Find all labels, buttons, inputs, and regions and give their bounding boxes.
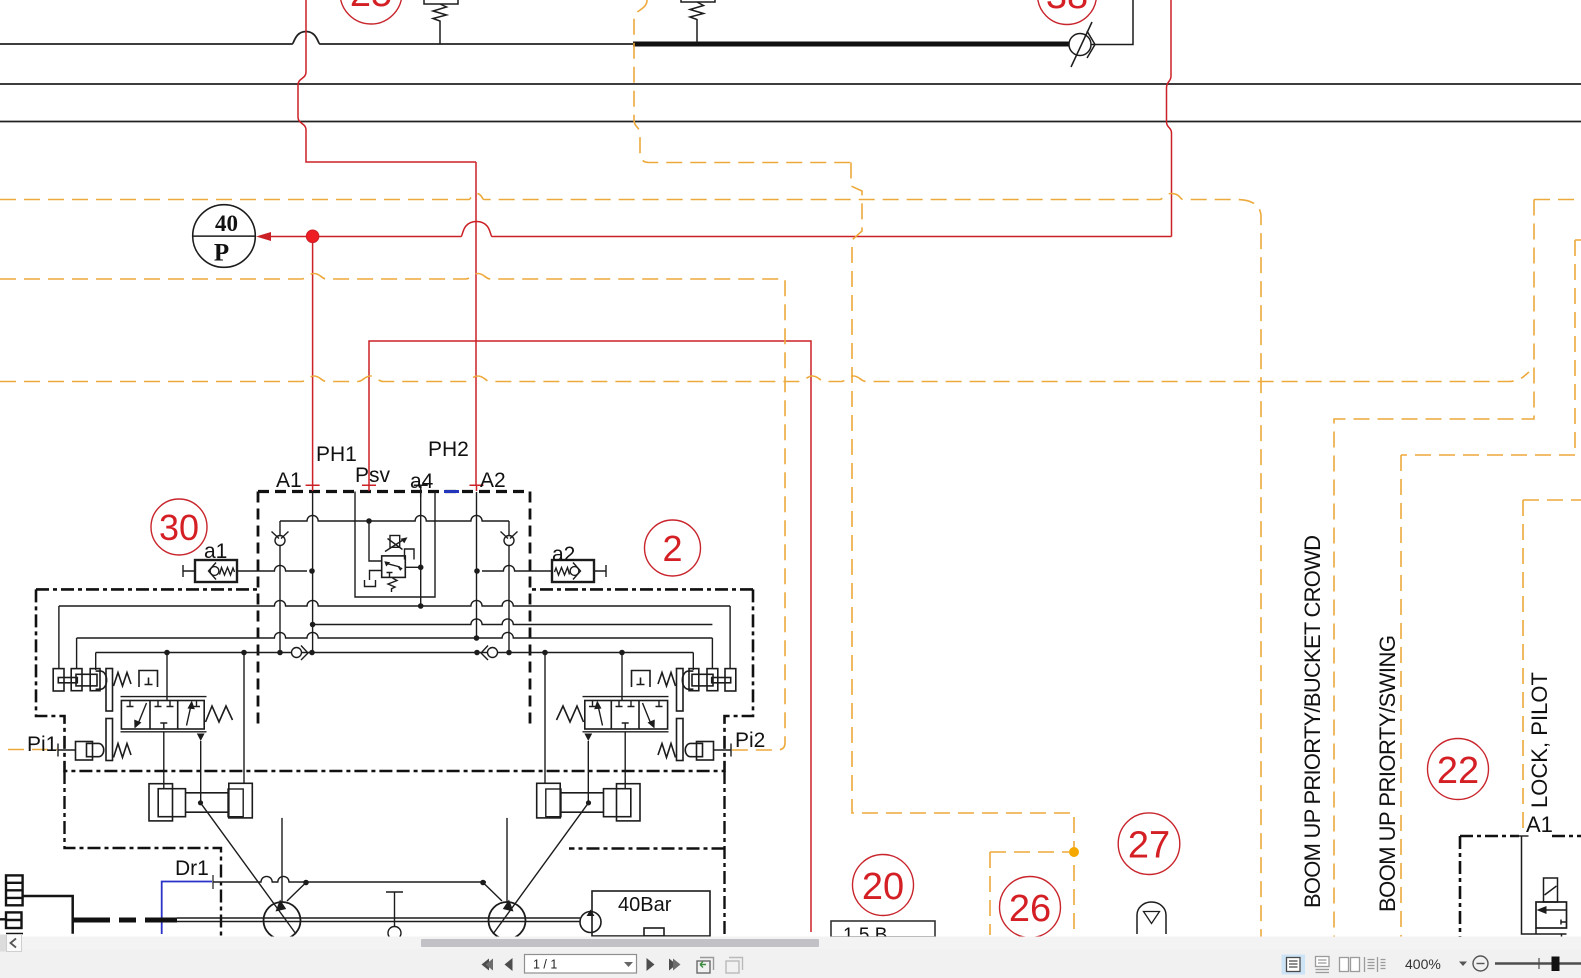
wire: red pilot drop left (298, 0, 476, 162)
svg-text:a4: a4 (410, 470, 434, 493)
svg-text:A2: A2 (480, 469, 506, 492)
wire: hydraulic rail 2 (0, 83, 1581, 85)
btn prev page (505, 958, 513, 971)
balloon 26 (1000, 877, 1061, 938)
boundary Y3: dashed rail 3 (0, 372, 1529, 382)
node: orange junction dot (1069, 847, 1079, 857)
wire: servo control line (213, 876, 486, 882)
boundary V1: vertical via orange node (851, 163, 1074, 940)
svg-text:BOOM UP PRIORTY/BUCKET CROWD: BOOM UP PRIORTY/BUCKET CROWD (1300, 535, 1325, 908)
svg-text:2: 2 (662, 528, 682, 569)
boundary V5 right (1401, 240, 1581, 939)
axis: center shaft tick and drain (177, 876, 580, 939)
annotation: blue dash on border (444, 490, 459, 493)
valve: bus check valves (292, 646, 498, 661)
shaft: drive shaft double line (177, 918, 580, 922)
svg-text:Pi2: Pi2 (735, 729, 765, 752)
wire: hydraulic rail 3 (0, 121, 1581, 123)
boundary V1 branch (990, 852, 1069, 935)
svg-text:Psv: Psv (355, 464, 391, 487)
wire: inner top gallery y=521 (280, 492, 509, 653)
wire: red pilot vertical to A2/PH2 (475, 162, 477, 485)
svg-text:a2: a2 (552, 543, 575, 566)
svg-text:38: 38 (1046, 0, 1088, 17)
wire: thick delivery line (633, 42, 1069, 47)
valve Psv: torque/pressure compensator (365, 536, 421, 593)
svg-text:A1: A1 (276, 469, 302, 492)
gauge G40: pressure test point 40/P (193, 205, 256, 268)
valve V38: check/relief valve at end of thick line (1069, 0, 1133, 67)
btn next page (647, 958, 655, 971)
svg-text:30: 30 (159, 507, 199, 548)
filter: return filter dome (1137, 902, 1166, 934)
boundary Y2: dashed rail 2 to Pi2 (0, 274, 785, 751)
btn last page (669, 959, 677, 971)
wire: bus C (77, 632, 713, 638)
ports A1 Psv a4 A2 (306, 485, 484, 491)
balloon 27 (1118, 813, 1180, 875)
svg-text:27: 27 (1128, 825, 1170, 867)
valve U22: solenoid pilot valve (1515, 836, 1567, 941)
arrow to gauge (256, 232, 271, 241)
balloon 25 (340, 0, 402, 24)
balloon 22 (1428, 739, 1489, 800)
svg-text:BOOM UP PRIORTY/SWING: BOOM UP PRIORTY/SWING (1375, 635, 1400, 912)
svg-text:22: 22 (1437, 750, 1479, 792)
boundary Pi1 stub (8, 749, 57, 751)
svg-text:A1: A1 (1526, 812, 1553, 837)
wire: red gauge line with jump (264, 222, 1172, 237)
wire: Psv feed line (369, 341, 811, 932)
svg-text:a1: a1 (204, 540, 227, 563)
tank line L (23, 896, 73, 934)
thick suction dash line (73, 918, 177, 923)
wire: bus A (59, 600, 730, 652)
boundary: central valve box dashed (258, 492, 530, 727)
icon prev view (697, 958, 714, 974)
wire: red riser right (1167, 0, 1172, 237)
wire: bus D (96, 652, 694, 654)
relief frame (355, 492, 435, 598)
icon next view (disabled) (726, 958, 743, 974)
filter: suction strainer stack (0, 875, 23, 933)
box: 1.5Bar label box (831, 921, 935, 937)
page layout icons (1282, 955, 1306, 975)
balloon 2 (645, 520, 701, 576)
svg-text:40: 40 (215, 211, 238, 236)
svg-text:LOCK, PILOT: LOCK, PILOT (1527, 672, 1552, 808)
page count box (525, 955, 637, 974)
boundary V4 right (1334, 200, 1581, 940)
balloon 20 (853, 855, 914, 916)
wire: bus B (313, 619, 713, 625)
boundary: lower right dash-dot (1460, 836, 1581, 948)
wire: port drops (312, 492, 314, 653)
svg-text:400%: 400% (1405, 956, 1441, 972)
svg-text:Dr1: Dr1 (175, 857, 209, 880)
svg-text:PH2: PH2 (428, 438, 469, 461)
wire: PH1 drop (312, 237, 314, 486)
balloon 30 (151, 499, 207, 555)
btn first page (482, 959, 490, 971)
svg-text:P: P (214, 240, 229, 267)
boundary Y1: long dashed rail 1 (0, 194, 1261, 940)
pump P3: gear pump + 40Bar relief box (580, 891, 710, 936)
spring S25a (top, cut) (424, 0, 458, 44)
balloon 38 (1038, 0, 1097, 25)
svg-text:25: 25 (350, 0, 392, 15)
boundary Y0: top drop and shelf (634, 0, 851, 163)
svg-text:20: 20 (862, 866, 904, 908)
svg-text:40Bar: 40Bar (618, 894, 672, 916)
svg-text:PH1: PH1 (316, 443, 357, 466)
svg-text:26: 26 (1009, 888, 1051, 930)
boundary: outer pump housing dash-dot (65, 771, 725, 940)
boundary V6 right (1523, 500, 1581, 835)
drain Dr1 blue line (162, 882, 212, 935)
node: red junction dot (306, 230, 319, 243)
wire: hydraulic rail 1 with jump over red pilot line (0, 32, 633, 45)
svg-text:Pi1: Pi1 (27, 733, 57, 756)
svg-text:1 / 1: 1 / 1 (533, 958, 557, 972)
spring S38a (top, cut) (681, 0, 715, 43)
